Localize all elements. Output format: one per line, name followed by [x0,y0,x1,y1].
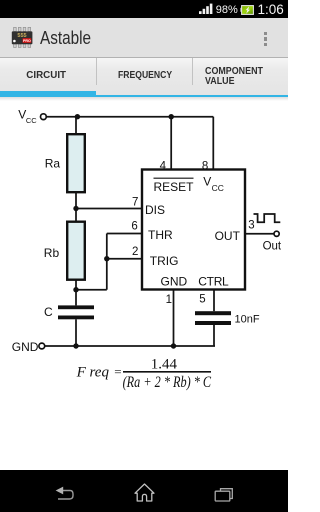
svg-text:TRIG: TRIG [150,254,179,268]
svg-text:4: 4 [160,160,167,172]
svg-text:CC: CC [26,116,37,125]
svg-text:Out: Out [263,240,282,252]
svg-text:1: 1 [166,294,172,306]
svg-text:DIS: DIS [145,203,165,217]
svg-text:CC: CC [212,183,224,193]
svg-text:C: C [44,305,53,319]
svg-text:1.44: 1.44 [151,356,178,372]
svg-text:Ra: Ra [45,157,61,171]
svg-text:THR: THR [148,228,173,242]
svg-text:GND: GND [161,274,188,288]
svg-text:Rb: Rb [44,246,60,260]
svg-text:(Ra + 2 * Rb) * C: (Ra + 2 * Rb) * C [123,374,212,391]
svg-text:GND: GND [12,340,39,354]
svg-text:=: = [114,364,121,379]
svg-text:5: 5 [199,294,205,306]
svg-text:F req: F req [76,364,110,380]
svg-text:OUT: OUT [215,229,241,243]
svg-text:V: V [203,175,211,189]
svg-text:7: 7 [132,197,138,209]
svg-text:10nF: 10nF [235,314,260,326]
svg-text:8: 8 [202,160,208,172]
svg-text:6: 6 [131,221,137,233]
svg-text:CTRL: CTRL [198,274,229,288]
svg-text:3: 3 [248,219,254,231]
svg-text:2: 2 [132,246,138,258]
svg-text:RESET: RESET [154,180,195,194]
